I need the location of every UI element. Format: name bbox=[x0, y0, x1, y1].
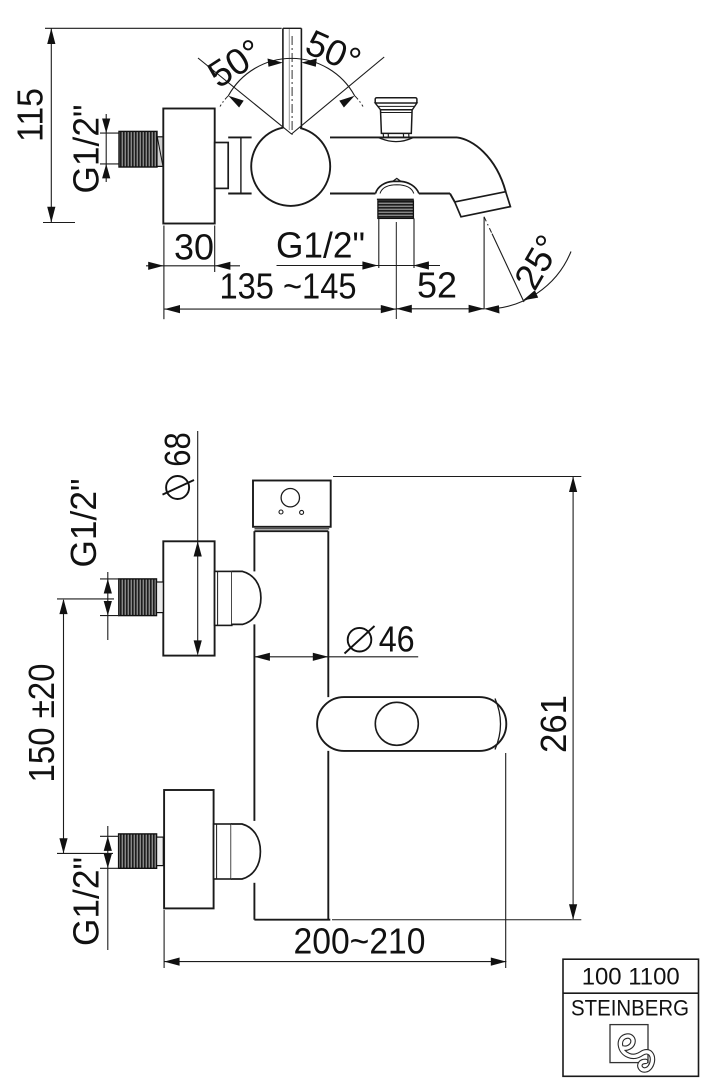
label d46 bbox=[345, 619, 415, 660]
shower outlet arch (top view) bbox=[376, 178, 419, 193]
dimension 135-145 line bbox=[165, 308, 397, 310]
dimension 115 vertical line bbox=[43, 28, 282, 222]
lower wall escutcheon (front view) bbox=[164, 790, 214, 908]
dimension 261 line bbox=[332, 477, 581, 920]
dimension d68 arrowheads bbox=[194, 541, 202, 655]
dimension 200-210 line bbox=[164, 753, 506, 968]
svg-text:46: 46 bbox=[379, 619, 415, 660]
svg-text:261: 261 bbox=[533, 695, 574, 753]
lever handle (front view) bbox=[317, 697, 506, 751]
svg-text:STEINBERG: STEINBERG bbox=[571, 996, 689, 1021]
dimension G1/2 outlet line bbox=[277, 265, 441, 267]
dimension 115 arrowheads bbox=[47, 28, 55, 222]
dimension 150+-20 line bbox=[57, 599, 114, 854]
lower dome cap bbox=[231, 824, 260, 879]
body tube (top view) with seam bbox=[228, 137, 457, 193]
logo box bbox=[563, 959, 699, 1076]
dimension d46 line bbox=[254, 656, 418, 658]
dimension G1/2 thread (top view) arrows bbox=[102, 119, 110, 179]
50deg left reference line bbox=[198, 58, 292, 134]
dimension 30 line bbox=[146, 226, 240, 320]
svg-text:G1/2": G1/2" bbox=[66, 105, 107, 194]
label d68 bbox=[166, 476, 189, 499]
diverter knob (top view) bbox=[375, 98, 417, 142]
svg-text:G1/2": G1/2" bbox=[66, 857, 107, 946]
dimension G1/2 lower arrowheads bbox=[104, 836, 112, 868]
upper threaded nipple (front view) bbox=[119, 579, 164, 616]
dimension 200-210 arrowheads bbox=[164, 958, 506, 966]
sleeve between escutcheon and body (top view) bbox=[215, 143, 229, 189]
shower outlet centre line bbox=[395, 222, 397, 319]
handle rod center line (dash-dot) bbox=[291, 36, 293, 136]
lower threaded nipple (front view) bbox=[119, 834, 164, 868]
svg-text:135 ~145: 135 ~145 bbox=[220, 266, 357, 307]
svg-text:115: 115 bbox=[10, 88, 51, 142]
50deg right reference line bbox=[292, 57, 385, 134]
handle rod (top view) bbox=[283, 28, 302, 130]
svg-text:68: 68 bbox=[157, 432, 198, 467]
svg-text:G1/2": G1/2" bbox=[276, 225, 365, 266]
threaded nipple (top view) bbox=[119, 131, 163, 167]
25deg slanted reference line bbox=[484, 217, 524, 302]
logo swirl bbox=[620, 1036, 652, 1070]
svg-text:52: 52 bbox=[417, 265, 457, 306]
dimension 30 arrowheads bbox=[148, 262, 230, 270]
ball joint (top view) bbox=[251, 127, 330, 206]
shower outlet thread (top view) bbox=[377, 199, 414, 218]
50deg arc dash-dot extensions bbox=[220, 96, 228, 107]
dimension G1/2 outlet arrowheads bbox=[362, 261, 429, 269]
dimension 135-145 arrowheads bbox=[165, 305, 397, 313]
cartridge cap (front view) bbox=[253, 481, 331, 529]
dimension 52 arrowheads bbox=[396, 305, 484, 313]
shower outlet extension lines bbox=[379, 218, 414, 268]
25deg arc arrowheads bbox=[484, 290, 538, 313]
dimension 150+-20 arrowheads bbox=[59, 599, 67, 854]
svg-text:200~210: 200~210 bbox=[294, 921, 426, 962]
svg-text:100 1100: 100 1100 bbox=[582, 964, 680, 991]
spout bend and nozzle bbox=[450, 137, 510, 216]
dimension G1/2 upper lines bbox=[100, 572, 119, 640]
25deg vertical reference line bbox=[483, 217, 485, 310]
dimension d68 leader bbox=[197, 431, 199, 650]
upper sleeve bbox=[215, 571, 232, 625]
50deg arc arrowheads bbox=[228, 59, 354, 108]
body column (front view) bbox=[254, 531, 330, 920]
dimension G1/2 lower lines bbox=[100, 826, 119, 950]
dimension 52 line bbox=[396, 308, 484, 310]
dimension G1/2 upper arrowheads bbox=[104, 579, 112, 616]
escutcheon (top view) bbox=[163, 109, 214, 224]
logo square bbox=[610, 1025, 648, 1063]
50deg arc bbox=[228, 58, 354, 95]
dimension d46 arrowheads bbox=[254, 653, 328, 661]
svg-text:150 ±20: 150 ±20 bbox=[21, 664, 62, 783]
svg-text:30: 30 bbox=[174, 227, 214, 268]
svg-text:G1/2": G1/2" bbox=[63, 479, 104, 568]
dimension 261 arrowheads bbox=[569, 477, 577, 920]
25deg arc bbox=[486, 252, 572, 309]
upper wall escutcheon (front view) bbox=[163, 541, 214, 655]
dimension G1/2 thread (top view) lines bbox=[100, 114, 119, 182]
lower sleeve bbox=[214, 824, 232, 879]
upper dome cap bbox=[232, 571, 261, 624]
